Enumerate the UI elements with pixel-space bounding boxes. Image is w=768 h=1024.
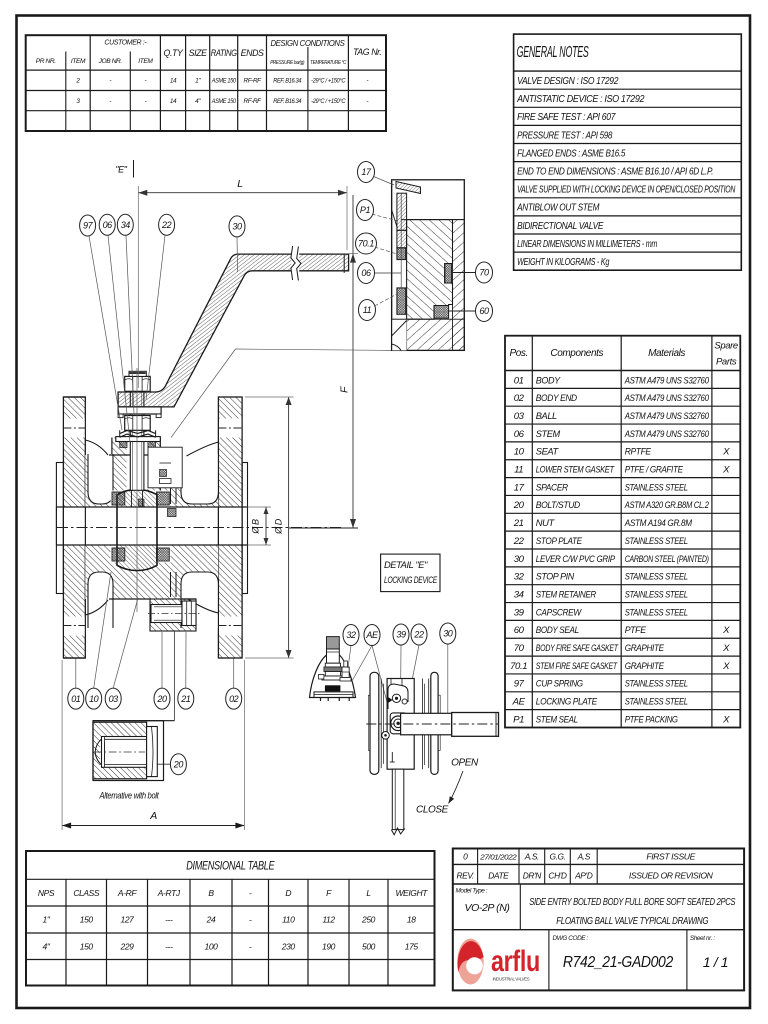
svg-text:PTFE: PTFE — [625, 625, 647, 636]
svg-text:DIMENSIONAL TABLE: DIMENSIONAL TABLE — [186, 861, 275, 873]
svg-text:06: 06 — [103, 220, 113, 230]
svg-text:Sheet nr. :: Sheet nr. : — [690, 935, 715, 942]
svg-text:LEVER C/W PVC GRIP: LEVER C/W PVC GRIP — [536, 554, 616, 565]
svg-text:A.S: A.S — [577, 852, 591, 862]
svg-text:ASME 150: ASME 150 — [211, 78, 237, 85]
svg-text:-: - — [366, 98, 368, 105]
stop pin 32 in detail — [344, 661, 348, 667]
svg-text:PR NR.: PR NR. — [36, 58, 57, 65]
svg-text:SEAT: SEAT — [536, 447, 559, 458]
svg-text:-: - — [144, 78, 146, 85]
dimension OB — [248, 506, 272, 508]
spacer 17 — [396, 182, 421, 194]
svg-text:70: 70 — [514, 643, 525, 654]
svg-text:RF-RF: RF-RF — [244, 98, 263, 105]
svg-text:Q.TY: Q.TY — [164, 48, 184, 58]
alternative with bolt detail — [173, 631, 175, 721]
svg-text:SPACER: SPACER — [536, 482, 568, 493]
DETAIL E label box — [381, 554, 440, 592]
svg-text:AP'D: AP'D — [574, 871, 593, 881]
svg-text:01: 01 — [71, 694, 81, 704]
svg-text:D: D — [285, 888, 291, 898]
bonnet neck — [112, 438, 160, 456]
svg-text:10: 10 — [514, 447, 525, 458]
seat pocket white around ball top/bottom — [111, 491, 171, 508]
stem retainer nut 34 — [125, 416, 151, 431]
svg-text:ISSUED OR REVISION: ISSUED OR REVISION — [629, 871, 714, 881]
svg-text:1 / 1: 1 / 1 — [703, 954, 728, 970]
svg-text:ASTM A479 UNS S32760: ASTM A479 UNS S32760 — [624, 375, 710, 386]
svg-text:190: 190 — [322, 941, 336, 951]
svg-text:-: - — [109, 98, 111, 105]
svg-text:ITEM: ITEM — [71, 58, 86, 65]
svg-text:A.S.: A.S. — [524, 852, 539, 862]
svg-text:60: 60 — [479, 306, 489, 316]
svg-text:---: --- — [165, 941, 173, 951]
svg-text:G.G.: G.G. — [549, 852, 565, 862]
stem seal P1 — [397, 193, 407, 230]
svg-text:BOLT/STUD: BOLT/STUD — [536, 500, 580, 511]
svg-text:STAINLESS STEEL: STAINLESS STEEL — [625, 589, 688, 600]
svg-text:GENERAL NOTES: GENERAL NOTES — [517, 44, 590, 61]
svg-text:100: 100 — [205, 941, 219, 951]
svg-text:0: 0 — [463, 852, 468, 862]
bottom mark — [391, 752, 393, 762]
svg-text:39: 39 — [396, 630, 406, 640]
svg-text:P1: P1 — [360, 205, 371, 215]
svg-text:STEM SEAL: STEM SEAL — [536, 714, 578, 725]
svg-text:A-RF: A-RF — [117, 888, 137, 898]
svg-text:DR'N: DR'N — [523, 871, 542, 881]
svg-text:REF. B16.34: REF. B16.34 — [273, 98, 302, 105]
svg-text:R742_21-GAD002: R742_21-GAD002 — [563, 954, 673, 971]
svg-text:arflu: arflu — [491, 945, 540, 978]
svg-text:ASTM A320 GR.B8M CL.2: ASTM A320 GR.B8M CL.2 — [624, 500, 710, 511]
general notes panel — [514, 34, 742, 270]
svg-text:X: X — [722, 447, 730, 458]
svg-text:ASME 150: ASME 150 — [211, 98, 237, 105]
svg-text:150: 150 — [80, 941, 94, 951]
lower stem gasket 11 — [397, 288, 406, 314]
svg-text:30: 30 — [514, 554, 525, 565]
svg-text:18: 18 — [407, 915, 416, 925]
svg-text:27/01/2022: 27/01/2022 — [479, 853, 517, 862]
raised faces — [56, 463, 63, 594]
svg-text:SIZE: SIZE — [189, 48, 207, 58]
lever bar (open position) — [401, 713, 452, 735]
svg-text:FIRE SAFE TEST : API 607: FIRE SAFE TEST : API 607 — [517, 112, 616, 123]
svg-text:PTFE PACKING: PTFE PACKING — [625, 714, 679, 725]
svg-text:---: --- — [165, 915, 173, 925]
lever end cap — [343, 254, 345, 273]
svg-text:34: 34 — [514, 589, 524, 600]
svg-text:03: 03 — [514, 411, 525, 422]
ball 03 — [117, 489, 157, 570]
lever 30 (handle bar) — [118, 254, 349, 407]
svg-text:STAINLESS STEEL: STAINLESS STEEL — [625, 607, 688, 618]
svg-text:DATE: DATE — [488, 871, 509, 881]
svg-text:OPEN: OPEN — [451, 758, 479, 769]
svg-text:P1: P1 — [513, 714, 524, 725]
svg-text:BODY END: BODY END — [536, 393, 577, 404]
svg-text:-: - — [109, 78, 111, 85]
svg-text:Components: Components — [550, 348, 603, 359]
svg-text:14: 14 — [170, 98, 177, 105]
stem packing small gaskets — [120, 441, 127, 447]
svg-text:97: 97 — [514, 679, 525, 690]
svg-text:VALVE SUPPLIED WITH LOCKING DE: VALVE SUPPLIED WITH LOCKING DEVICE IN OP… — [517, 185, 736, 196]
svg-text:22: 22 — [413, 630, 424, 640]
svg-text:14: 14 — [170, 78, 177, 85]
svg-text:22: 22 — [513, 536, 525, 547]
svg-text:VO-2P (N): VO-2P (N) — [464, 902, 509, 914]
svg-text:CAPSCREW: CAPSCREW — [536, 607, 582, 618]
svg-text:17: 17 — [361, 167, 372, 177]
svg-text:20: 20 — [513, 500, 525, 511]
svg-text:500: 500 — [362, 941, 376, 951]
svg-text:STAINLESS STEEL: STAINLESS STEEL — [625, 697, 688, 708]
svg-text:PRESSURE TEST : API 598: PRESSURE TEST : API 598 — [517, 130, 613, 141]
side view body — [387, 679, 414, 770]
dimension F — [352, 195, 354, 528]
side view balloons — [343, 625, 359, 646]
pipe bore lines — [55, 507, 57, 545]
svg-text:-: - — [144, 98, 146, 105]
svg-text:ASTM A479 UNS S32760: ASTM A479 UNS S32760 — [624, 429, 710, 440]
svg-text:PRESSURE bar(g): PRESSURE bar(g) — [270, 60, 304, 66]
lever break marks — [291, 253, 299, 273]
dimensional table — [26, 851, 435, 986]
drain stud 20 / nut 21 boss — [150, 599, 196, 631]
stem 06 column — [130, 391, 144, 490]
svg-text:02: 02 — [229, 694, 239, 704]
svg-text:WEIGHT IN KILOGRAMS - Kg: WEIGHT IN KILOGRAMS - Kg — [517, 257, 610, 268]
svg-text:CLASS: CLASS — [73, 888, 100, 898]
svg-text:150: 150 — [80, 915, 94, 925]
svg-text:AE: AE — [365, 630, 379, 640]
hub transition curves — [85, 440, 108, 455]
side view flanges — [370, 672, 379, 774]
svg-text:250: 250 — [361, 915, 376, 925]
svg-text:70.1: 70.1 — [358, 239, 374, 249]
svg-text:FLANGED ENDS : ASME B16.5: FLANGED ENDS : ASME B16.5 — [517, 148, 626, 159]
svg-text:NPS: NPS — [38, 888, 55, 898]
body outline edges — [109, 454, 181, 456]
svg-text:"E": "E" — [115, 165, 127, 175]
body seal 60 — [434, 306, 449, 319]
svg-text:L: L — [366, 888, 371, 898]
arflu logo — [457, 939, 540, 985]
svg-text:BODY FIRE SAFE GASKET: BODY FIRE SAFE GASKET — [536, 643, 619, 654]
svg-text:20: 20 — [156, 694, 167, 704]
svg-text:Materials: Materials — [648, 348, 685, 359]
svg-text:F: F — [339, 386, 351, 393]
svg-text:A-RTJ: A-RTJ — [157, 888, 181, 898]
dimension L — [138, 192, 347, 194]
svg-text:JOB NR.: JOB NR. — [98, 58, 123, 65]
white relief pockets between hubs — [88, 454, 113, 504]
svg-text:ASTM A479 UNS S32760: ASTM A479 UNS S32760 — [624, 411, 710, 422]
svg-text:X: X — [722, 625, 730, 636]
svg-text:03: 03 — [109, 694, 119, 704]
svg-text:Parts: Parts — [716, 356, 737, 367]
svg-text:STOP PLATE: STOP PLATE — [536, 536, 583, 547]
alt-bolt leader — [155, 763, 171, 765]
left flange (body 01 end flange) — [63, 397, 85, 658]
svg-text:DESIGN CONDITIONS: DESIGN CONDITIONS — [270, 39, 345, 48]
svg-text:127: 127 — [121, 915, 135, 925]
svg-text:CARBON STEEL (PAINTED): CARBON STEEL (PAINTED) — [625, 554, 709, 565]
svg-text:112: 112 — [322, 915, 335, 925]
body barrel sections — [85, 455, 218, 507]
dimension A — [62, 825, 244, 827]
svg-text:X: X — [722, 661, 730, 672]
svg-text:32: 32 — [514, 572, 525, 583]
svg-text:STAINLESS STEEL: STAINLESS STEEL — [625, 482, 688, 493]
svg-text:01: 01 — [514, 375, 524, 386]
svg-text:X: X — [722, 643, 730, 654]
svg-text:39: 39 — [514, 607, 525, 618]
svg-text:RPTFE: RPTFE — [625, 447, 652, 458]
svg-text:ASTM A194 GR.8M: ASTM A194 GR.8M — [624, 518, 692, 529]
svg-text:REV.: REV. — [457, 871, 475, 881]
title block — [453, 849, 744, 991]
svg-text:B: B — [208, 888, 214, 898]
svg-text:GRAPHITE: GRAPHITE — [625, 643, 665, 654]
svg-text:11: 11 — [363, 305, 372, 315]
svg-text:CUSTOMER :-: CUSTOMER :- — [104, 40, 147, 47]
svg-text:RF-RF: RF-RF — [244, 78, 263, 85]
svg-text:L: L — [237, 178, 243, 190]
balloon leaders (main view) — [89, 236, 122, 430]
components / materials table — [505, 336, 740, 728]
svg-text:BALL: BALL — [536, 411, 557, 422]
svg-text:20: 20 — [173, 759, 184, 769]
svg-text:-: - — [366, 78, 368, 85]
svg-text:Ø D: Ø D — [274, 518, 284, 535]
body side column — [453, 220, 465, 351]
svg-text:229: 229 — [120, 941, 135, 951]
svg-text:97: 97 — [83, 221, 94, 231]
svg-text:A: A — [149, 810, 157, 822]
svg-text:70: 70 — [479, 268, 489, 278]
svg-text:FLOATING BALL VALVE TYPICAL DR: FLOATING BALL VALVE TYPICAL DRAWING — [556, 916, 708, 927]
svg-text:21: 21 — [513, 518, 524, 529]
cup springs 97 — [120, 431, 156, 434]
svg-text:175: 175 — [405, 941, 419, 951]
svg-text:06: 06 — [514, 429, 525, 440]
leader from main view to detail — [171, 349, 236, 438]
seats 10 — [112, 492, 125, 505]
svg-text:CUP SPRING: CUP SPRING — [536, 679, 584, 690]
svg-text:BODY SEAL: BODY SEAL — [536, 625, 579, 636]
svg-text:PTFE / GRAFITE: PTFE / GRAFITE — [625, 465, 684, 476]
svg-text:Model Type :: Model Type : — [456, 887, 488, 894]
svg-text:Spare: Spare — [714, 341, 737, 352]
svg-text:06: 06 — [361, 268, 371, 278]
svg-text:X: X — [722, 714, 730, 725]
svg-text:END TO END DIMENSIONS : ASME B: END TO END DIMENSIONS : ASME B16.10 / AP… — [517, 167, 713, 178]
centerlines — [57, 527, 342, 529]
svg-text:ASTM A479 UNS S32760: ASTM A479 UNS S32760 — [624, 393, 710, 404]
svg-text:110: 110 — [282, 915, 295, 925]
svg-text:32: 32 — [346, 630, 356, 640]
svg-text:24: 24 — [206, 915, 216, 925]
svg-text:10: 10 — [89, 694, 99, 704]
svg-text:ANTISTATIC DEVICE : ISO 17292: ANTISTATIC DEVICE : ISO 17292 — [516, 94, 645, 105]
stem shoulder lines — [392, 210, 398, 229]
body joint lines — [170, 457, 172, 504]
svg-text:CH'D: CH'D — [548, 871, 566, 881]
stop plate 22 — [118, 407, 161, 414]
svg-text:STOP PIN: STOP PIN — [536, 572, 574, 583]
svg-text:21: 21 — [180, 694, 191, 704]
svg-text:NUT: NUT — [536, 518, 555, 529]
svg-text:BIDIRECTIONAL VALVE: BIDIRECTIONAL VALVE — [517, 221, 603, 232]
svg-text:TAG Nr.: TAG Nr. — [353, 47, 381, 57]
gland flange — [116, 437, 161, 442]
svg-text:LOCKING DEVICE: LOCKING DEVICE — [384, 575, 438, 585]
svg-text:VALVE DESIGN : ISO 17292: VALVE DESIGN : ISO 17292 — [517, 76, 619, 87]
svg-text:230: 230 — [281, 941, 296, 951]
svg-text:LINEAR DIMENSIONS IN MILLIMETE: LINEAR DIMENSIONS IN MILLIMETERS - mm — [517, 239, 658, 250]
svg-text:30: 30 — [232, 222, 242, 232]
bottom-left white notch — [392, 319, 407, 350]
svg-text:STAINLESS STEEL: STAINLESS STEEL — [625, 572, 688, 583]
locking plate mechanism top — [388, 684, 408, 709]
svg-text:02: 02 — [514, 393, 525, 404]
dimension OD — [288, 397, 290, 658]
svg-text:RATING: RATING — [211, 48, 237, 58]
svg-text:BODY: BODY — [536, 375, 561, 386]
svg-text:17: 17 — [514, 482, 525, 493]
detail-E source box on main view — [148, 447, 182, 488]
svg-text:STEM FIRE SAFE GASKET: STEM FIRE SAFE GASKET — [536, 661, 618, 672]
right flange (body end 02) — [218, 397, 242, 658]
svg-text:X: X — [722, 465, 730, 476]
svg-text:CLOSE: CLOSE — [416, 805, 449, 816]
svg-text:60: 60 — [514, 625, 525, 636]
svg-text:Alternative with bolt: Alternative with bolt — [99, 791, 159, 801]
svg-text:22: 22 — [161, 220, 172, 230]
balloons — [80, 215, 96, 236]
svg-text:DETAIL "E": DETAIL "E" — [384, 560, 428, 570]
svg-text:FIRST ISSUE: FIRST ISSUE — [646, 852, 695, 862]
lever flat + handle nut 30 region — [125, 376, 151, 391]
svg-text:SIDE ENTRY BOLTED BODY FULL BO: SIDE ENTRY BOLTED BODY FULL BORE SOFT SE… — [529, 897, 736, 908]
svg-text:ITEM: ITEM — [138, 58, 153, 65]
svg-text:DWG CODE :: DWG CODE : — [553, 935, 589, 942]
svg-text:-29°C / +150°C: -29°C / +150°C — [311, 97, 346, 105]
svg-text:AE: AE — [512, 697, 526, 708]
stem bore white — [127, 438, 148, 493]
close position lever (vertical) — [392, 769, 404, 829]
svg-text:REF. B16.34: REF. B16.34 — [273, 78, 302, 85]
svg-text:ENDS: ENDS — [241, 48, 264, 58]
stem fire safe gasket 70.1 — [397, 248, 406, 260]
main gland block — [407, 220, 453, 320]
svg-text:Ø B: Ø B — [251, 519, 261, 535]
svg-text:GRAPHITE: GRAPHITE — [625, 661, 665, 672]
svg-text:LOCKING PLATE: LOCKING PLATE — [536, 697, 598, 708]
order/customer table — [26, 35, 386, 131]
svg-text:ANTIBLOW OUT STEM: ANTIBLOW OUT STEM — [516, 203, 600, 214]
body fire safe gasket 70 — [445, 264, 452, 284]
svg-text:70.1: 70.1 — [510, 661, 527, 672]
svg-text:-29°C / +150°C: -29°C / +150°C — [311, 77, 346, 85]
svg-text:TEMPERATURE °C: TEMPERATURE °C — [310, 60, 347, 66]
svg-text:INDUSTRIAL VALVES: INDUSTRIAL VALVES — [493, 977, 530, 982]
svg-text:30: 30 — [443, 629, 453, 639]
svg-text:34: 34 — [121, 220, 131, 230]
svg-text:STAINLESS STEEL: STAINLESS STEEL — [625, 679, 688, 690]
svg-text:LOWER STEM GASKET: LOWER STEM GASKET — [536, 465, 615, 476]
svg-text:Pos.: Pos. — [509, 348, 527, 359]
stem hub circles — [390, 713, 407, 734]
svg-text:STEM: STEM — [536, 429, 560, 440]
detail balloons + leaders — [373, 176, 395, 185]
svg-text:STAINLESS STEEL: STAINLESS STEEL — [625, 536, 688, 547]
svg-text:11: 11 — [514, 465, 523, 476]
svg-text:WEIGHT: WEIGHT — [395, 888, 428, 898]
svg-text:STEM RETAINER: STEM RETAINER — [536, 589, 596, 600]
